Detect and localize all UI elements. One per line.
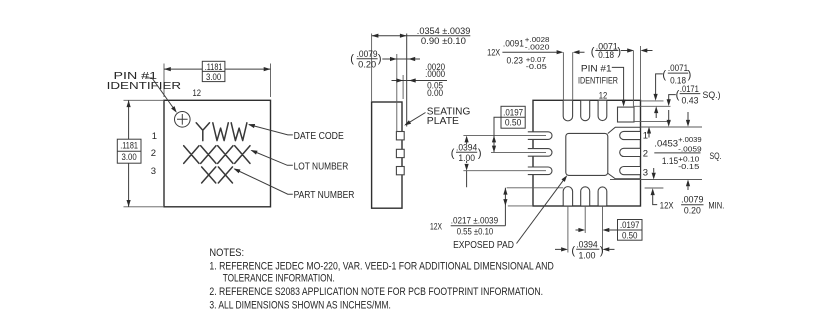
svg-text:.0171: .0171 bbox=[680, 84, 699, 94]
svg-text:0.00: 0.00 bbox=[427, 88, 443, 98]
left side pad centerline extension lines bbox=[463, 136, 546, 171]
svg-text:0.55 ±0.10: 0.55 ±0.10 bbox=[457, 227, 494, 237]
leader from PIN #1 IDENTIFIER to circle bbox=[146, 78, 176, 111]
svg-text:IDENTIFIER: IDENTIFIER bbox=[107, 81, 182, 92]
bottom view bottom terminal 5 bbox=[563, 187, 572, 206]
svg-text:-.0020: -.0020 bbox=[525, 42, 550, 51]
side view package body bbox=[372, 102, 402, 208]
svg-text:TOLERANCE INFORMATION.: TOLERANCE INFORMATION. bbox=[223, 273, 335, 285]
pin 1 flag contour bottom bbox=[607, 173, 640, 179]
top view horizontal dimension extension lines bbox=[164, 64, 271, 98]
svg-text:IDENTIFIER: IDENTIFIER bbox=[578, 76, 618, 87]
svg-text:.1181: .1181 bbox=[205, 62, 223, 72]
bottom view bottom terminal 6 bbox=[581, 187, 590, 206]
svg-text:0.43: 0.43 bbox=[682, 95, 699, 105]
marking text XX bbox=[202, 167, 233, 183]
svg-text:.0091: .0091 bbox=[503, 38, 524, 48]
terminal width dimension 12X .0091 bbox=[502, 51, 584, 53]
bottom pad centerline extension lines bbox=[568, 206, 603, 253]
svg-text:PIN #1: PIN #1 bbox=[581, 63, 612, 74]
marking text YWW bbox=[196, 123, 247, 141]
svg-text:.0197: .0197 bbox=[620, 220, 639, 230]
leader from PIN #1 IDENTIFIER to corner pad bbox=[612, 67, 624, 100]
svg-text:1: 1 bbox=[152, 131, 157, 142]
svg-text:0.50: 0.50 bbox=[505, 117, 522, 127]
svg-text:PLATE: PLATE bbox=[427, 116, 460, 127]
pad pitch basic dimension box .0197/0.50 (bottom) bbox=[576, 229, 618, 231]
exposed pad bbox=[566, 133, 608, 175]
svg-text:0.20: 0.20 bbox=[684, 205, 701, 215]
svg-text:1.00: 1.00 bbox=[458, 153, 475, 163]
standoff dimension .0020/.0000 bbox=[392, 80, 448, 82]
svg-text:): ) bbox=[600, 245, 604, 257]
svg-text:(: ( bbox=[591, 46, 595, 58]
svg-text:.0079: .0079 bbox=[681, 195, 703, 205]
svg-text:1.00: 1.00 bbox=[579, 250, 596, 260]
svg-text:EXPOSED PAD: EXPOSED PAD bbox=[453, 240, 514, 251]
side view terminal 1 bbox=[396, 132, 404, 140]
bottom view package body bbox=[533, 100, 641, 206]
svg-text:1. REFERENCE JEDEC MO-220, VAR: 1. REFERENCE JEDEC MO-220, VAR. VEED-1 F… bbox=[209, 260, 553, 272]
seating plane line bbox=[406, 34, 408, 127]
corner pad side clearance dimension (.0071/0.18) top bbox=[595, 50, 652, 52]
reference dimension (.0079/0.20) bbox=[357, 58, 420, 60]
pad span reference dimension (.0394/1.00) bottom bbox=[555, 248, 615, 250]
svg-text:PART NUMBER: PART NUMBER bbox=[294, 190, 355, 201]
marking text XXXX bbox=[184, 146, 250, 164]
svg-text:0.18: 0.18 bbox=[598, 50, 614, 60]
svg-text:12: 12 bbox=[599, 90, 608, 101]
svg-text:): ) bbox=[617, 46, 621, 58]
side view terminal 3 bbox=[396, 167, 404, 175]
pad span reference dimension (.0394/1.00) left bbox=[465, 136, 469, 143]
svg-text:MIN.: MIN. bbox=[708, 201, 724, 211]
corner pad top clearance dimension (.0071/0.18) right bbox=[634, 101, 671, 122]
top view vertical dimension extension lines bbox=[124, 100, 165, 207]
pin 1 flag contour top bbox=[608, 127, 641, 133]
bottom view top terminal 11 bbox=[581, 101, 590, 121]
svg-text:+.0039: +.0039 bbox=[678, 135, 702, 144]
terminal clearance dimension 12X .0079/0.20 MIN. bbox=[651, 188, 655, 195]
side view terminal 2 bbox=[396, 149, 404, 157]
bottom view right terminal 3 bbox=[620, 167, 640, 175]
dimension box .1181/3.00 (top) bbox=[202, 61, 225, 81]
top view vertical dimension line .1181/3.00 bbox=[128, 100, 130, 207]
svg-text:2. REFERENCE S2083 APPLICATION: 2. REFERENCE S2083 APPLICATION NOTE FOR … bbox=[209, 286, 543, 298]
top view package body bbox=[164, 100, 271, 207]
leader from EXPOSED PAD to pad corner bbox=[517, 178, 566, 244]
svg-text:.0394: .0394 bbox=[576, 239, 598, 249]
svg-text:3: 3 bbox=[151, 166, 156, 177]
svg-text:0.50: 0.50 bbox=[622, 230, 638, 240]
bottom view left terminal 10 bbox=[528, 132, 552, 140]
corner pad size dimension (.0171/0.43 SQ.) bbox=[669, 95, 676, 100]
svg-text:1.15: 1.15 bbox=[662, 156, 678, 166]
svg-text:NOTES:: NOTES: bbox=[209, 247, 244, 259]
svg-text:): ) bbox=[688, 69, 692, 81]
bottom view top terminal 10 bbox=[563, 101, 572, 121]
svg-text:12: 12 bbox=[193, 88, 202, 99]
svg-text:(: ( bbox=[662, 69, 666, 81]
svg-text:0.20: 0.20 bbox=[358, 60, 376, 70]
svg-text:.0394: .0394 bbox=[456, 142, 477, 152]
svg-text:0.90 ±0.10: 0.90 ±0.10 bbox=[421, 36, 466, 46]
svg-text:): ) bbox=[478, 148, 482, 160]
svg-text:): ) bbox=[378, 53, 382, 65]
svg-text:-.0059: -.0059 bbox=[678, 145, 702, 154]
svg-text:(: ( bbox=[571, 245, 575, 257]
svg-text:DATE CODE: DATE CODE bbox=[294, 131, 344, 142]
svg-text:SQ.): SQ.) bbox=[703, 90, 721, 100]
flag extension lines and arrows right side bbox=[610, 127, 702, 188]
pad pitch basic dimension box .0197/0.50 (left) bbox=[501, 106, 525, 128]
svg-text:.0071: .0071 bbox=[668, 63, 688, 73]
terminal length dimension 12X .0217 bbox=[507, 188, 564, 206]
svg-text:LOT NUMBER: LOT NUMBER bbox=[294, 161, 349, 172]
leader to PART NUMBER bbox=[235, 169, 293, 194]
bottom view right terminal 1 bbox=[620, 131, 640, 139]
leader from SEATING PLATE to seating plane bbox=[406, 113, 426, 125]
svg-text:-0.05: -0.05 bbox=[526, 62, 547, 71]
bottom view left terminal 9 bbox=[528, 149, 552, 157]
top view horizontal dimension line .1181/3.00 bbox=[164, 68, 271, 70]
svg-text:2: 2 bbox=[151, 148, 156, 159]
svg-text:0.23: 0.23 bbox=[507, 56, 524, 66]
dimension box .1181/3.00 (left) bbox=[117, 139, 141, 163]
bottom view right terminal 2 bbox=[620, 148, 640, 156]
svg-text:3.00: 3.00 bbox=[122, 152, 137, 162]
svg-text:.0197: .0197 bbox=[503, 107, 523, 117]
leader to LOT NUMBER bbox=[252, 150, 293, 165]
svg-text:3. ALL DIMENSIONS SHOWN AS INC: 3. ALL DIMENSIONS SHOWN AS INCHES/MM. bbox=[209, 299, 391, 311]
bottom view left terminal 8 bbox=[528, 167, 552, 175]
svg-text:.0217 ±.0039: .0217 ±.0039 bbox=[451, 216, 498, 226]
svg-text:.0079: .0079 bbox=[357, 49, 378, 59]
side view extension lines bbox=[372, 34, 404, 132]
svg-text:.0453: .0453 bbox=[654, 139, 678, 149]
svg-text:(: ( bbox=[451, 148, 455, 160]
svg-text:12X: 12X bbox=[430, 222, 442, 232]
svg-text:(: ( bbox=[350, 53, 354, 65]
svg-text:.1181: .1181 bbox=[120, 141, 138, 151]
leader to DATE CODE bbox=[249, 125, 293, 135]
svg-text:SQ.: SQ. bbox=[710, 151, 722, 161]
pin 1 identifier corner pad bbox=[618, 107, 635, 122]
overall height dimension .0354 bbox=[372, 35, 471, 37]
svg-text:3: 3 bbox=[643, 167, 648, 178]
svg-text:2: 2 bbox=[643, 148, 648, 159]
svg-text:-0.15: -0.15 bbox=[678, 162, 699, 171]
svg-text:3.00: 3.00 bbox=[206, 72, 221, 82]
svg-text:12X: 12X bbox=[660, 201, 674, 211]
bottom view top terminal 12 bbox=[598, 101, 607, 121]
svg-text:12X: 12X bbox=[487, 47, 500, 57]
svg-text:.0000: .0000 bbox=[425, 69, 445, 79]
bottom view bottom terminal 7 bbox=[598, 187, 607, 206]
svg-text:1: 1 bbox=[643, 131, 648, 142]
pin 1 identifier circle with plus bbox=[175, 112, 191, 128]
svg-text:.0354 ±.0039: .0354 ±.0039 bbox=[417, 26, 471, 36]
